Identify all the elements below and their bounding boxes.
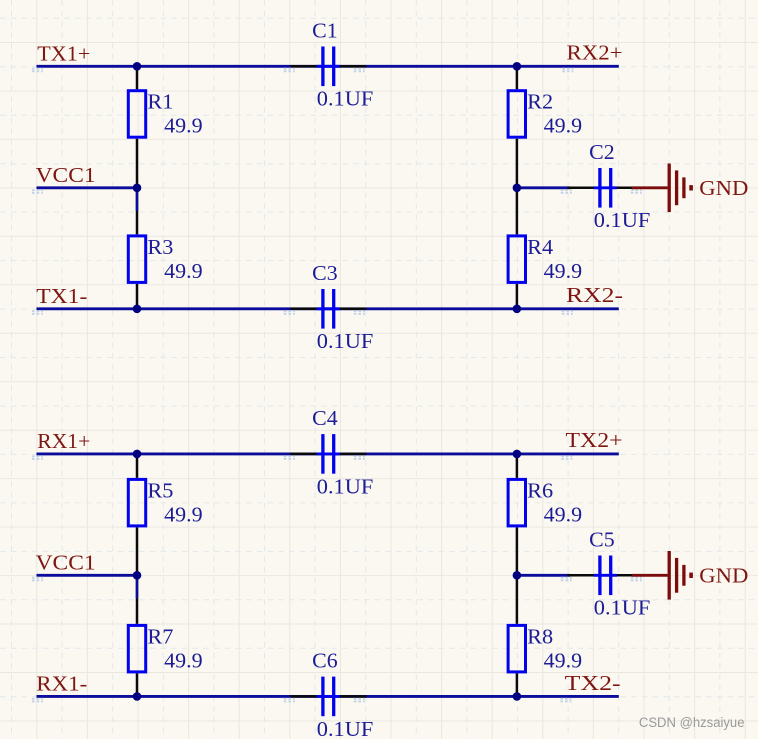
svg-text:C3: C3 [312,261,338,285]
net label TX1+ [32,69,43,72]
svg-text:R6: R6 [527,478,553,502]
svg-text:TX1-: TX1- [36,284,87,308]
net label RX1- [32,699,43,702]
net label TX1- [32,311,43,314]
svg-text:RX1+: RX1+ [37,429,90,453]
svg-text:0.1UF: 0.1UF [594,208,651,232]
junction R6/R8/C5 [513,571,522,580]
svg-text:VCC1: VCC1 [36,163,96,187]
wire/pins vertical left branch (R1-R3) [136,66,139,308]
wire TX1+ / RX2+ (row 1) [37,65,619,68]
resistor R2 [508,91,525,138]
net label VCC1 (bottom) [32,578,43,581]
resistor R8 [508,625,525,672]
junction RX2+/R2 [513,62,522,71]
resistor R6 [508,479,525,526]
wire stub below VCC1 junction (top) [136,188,139,211]
svg-text:49.9: 49.9 [164,114,203,138]
svg-text:CSDN @hzsaiyue: CSDN @hzsaiyue [639,715,745,731]
wire RX1+ / TX2+ (row 4) [37,452,619,455]
svg-text:0.1UF: 0.1UF [317,329,374,353]
svg-text:R5: R5 [147,478,173,502]
wire C2 branch to ground [517,186,570,189]
resistor R3 [128,236,145,283]
wire/pins vertical right branch (R2-R4) [516,66,519,308]
net label VCC1 (top) [32,190,43,193]
wire stub below VCC1 junction (bottom) [136,575,139,598]
resistor R7 [128,625,145,672]
net label RX2- [562,311,573,314]
svg-text:49.9: 49.9 [544,502,583,526]
resistor R5 [128,479,145,526]
svg-text:GND: GND [699,564,748,588]
junction R2/R4/C2 [513,184,522,193]
junction VCC1/R1/R3 [133,184,142,193]
net label RX2+ [562,69,573,72]
svg-text:RX2+: RX2+ [567,41,623,65]
svg-text:C5: C5 [589,528,615,552]
resistor R1 [128,91,145,138]
svg-text:R1: R1 [147,90,173,114]
svg-text:R8: R8 [527,624,553,648]
svg-text:VCC1: VCC1 [36,551,96,575]
svg-text:49.9: 49.9 [164,502,203,526]
svg-text:TX2-: TX2- [565,671,621,695]
capacitor C6 [290,677,366,717]
junction RX1-/R7 [133,692,142,701]
wire TX1- / RX2- (row 3) [37,307,619,310]
svg-text:RX2-: RX2- [566,283,623,307]
svg-text:R3: R3 [147,235,173,259]
resistor R4 [508,236,525,283]
svg-text:49.9: 49.9 [544,648,583,672]
wire/pins vertical left branch (R5-R7) [136,454,139,697]
svg-text:R2: R2 [527,90,553,114]
svg-text:49.9: 49.9 [164,648,203,672]
svg-text:0.1UF: 0.1UF [317,717,374,739]
wire RX1- / TX2- (row 6) [37,695,619,698]
junction TX1-/R3 [133,305,142,314]
power ground symbol GND (bottom) [632,551,691,600]
power ground symbol GND (top) [632,164,691,213]
wire VCC1 (top) [37,186,138,189]
svg-text:49.9: 49.9 [544,114,583,138]
net label TX2- [560,699,571,702]
svg-text:C6: C6 [312,649,338,673]
junction TX2-/R8 [513,692,522,701]
wire/pins vertical right branch (R6-R8) [516,454,519,697]
wire C5 branch to ground [517,574,570,577]
capacitor C3 [290,289,366,329]
capacitor C1 [290,47,366,87]
svg-text:TX1+: TX1+ [37,41,90,65]
capacitor C4 [290,434,366,474]
svg-text:49.9: 49.9 [544,259,583,283]
svg-text:R7: R7 [147,624,173,648]
svg-text:RX1-: RX1- [36,672,87,696]
junction RX1+/R5 [133,450,142,459]
wire VCC1 (bottom) [37,574,138,577]
junction VCC1/R5/R7 [133,571,142,580]
svg-text:TX2+: TX2+ [566,428,623,452]
svg-text:C2: C2 [589,140,615,164]
svg-text:0.1UF: 0.1UF [317,87,374,111]
svg-text:GND: GND [699,176,748,200]
svg-text:0.1UF: 0.1UF [594,596,651,620]
svg-text:R4: R4 [527,235,553,259]
junction TX2+/R6 [513,450,522,459]
net label TX2+ [561,456,572,459]
svg-text:C4: C4 [312,406,338,430]
net label RX1+ [32,456,43,459]
junction TX1+/R1 [133,62,142,71]
capacitor C5 [567,556,643,596]
capacitor C2 [567,168,643,208]
svg-text:C1: C1 [312,19,338,43]
junction RX2-/R4 [513,305,522,314]
svg-text:49.9: 49.9 [164,259,203,283]
svg-text:0.1UF: 0.1UF [317,474,374,498]
